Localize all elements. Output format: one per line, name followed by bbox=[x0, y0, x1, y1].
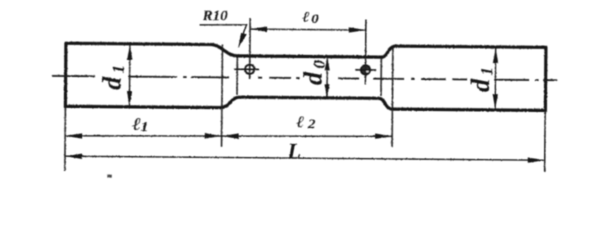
svg-text:d1: d1 bbox=[466, 67, 496, 92]
svg-text:ℓ1: ℓ1 bbox=[132, 115, 148, 135]
svg-text:d0: d0 bbox=[299, 59, 329, 85]
svg-text:d1: d1 bbox=[98, 65, 128, 90]
svg-text:R10: R10 bbox=[202, 8, 229, 24]
svg-text:ℓ2: ℓ2 bbox=[296, 112, 315, 131]
svg-text:ℓ0: ℓ0 bbox=[302, 10, 319, 27]
svg-text:L: L bbox=[286, 138, 301, 163]
